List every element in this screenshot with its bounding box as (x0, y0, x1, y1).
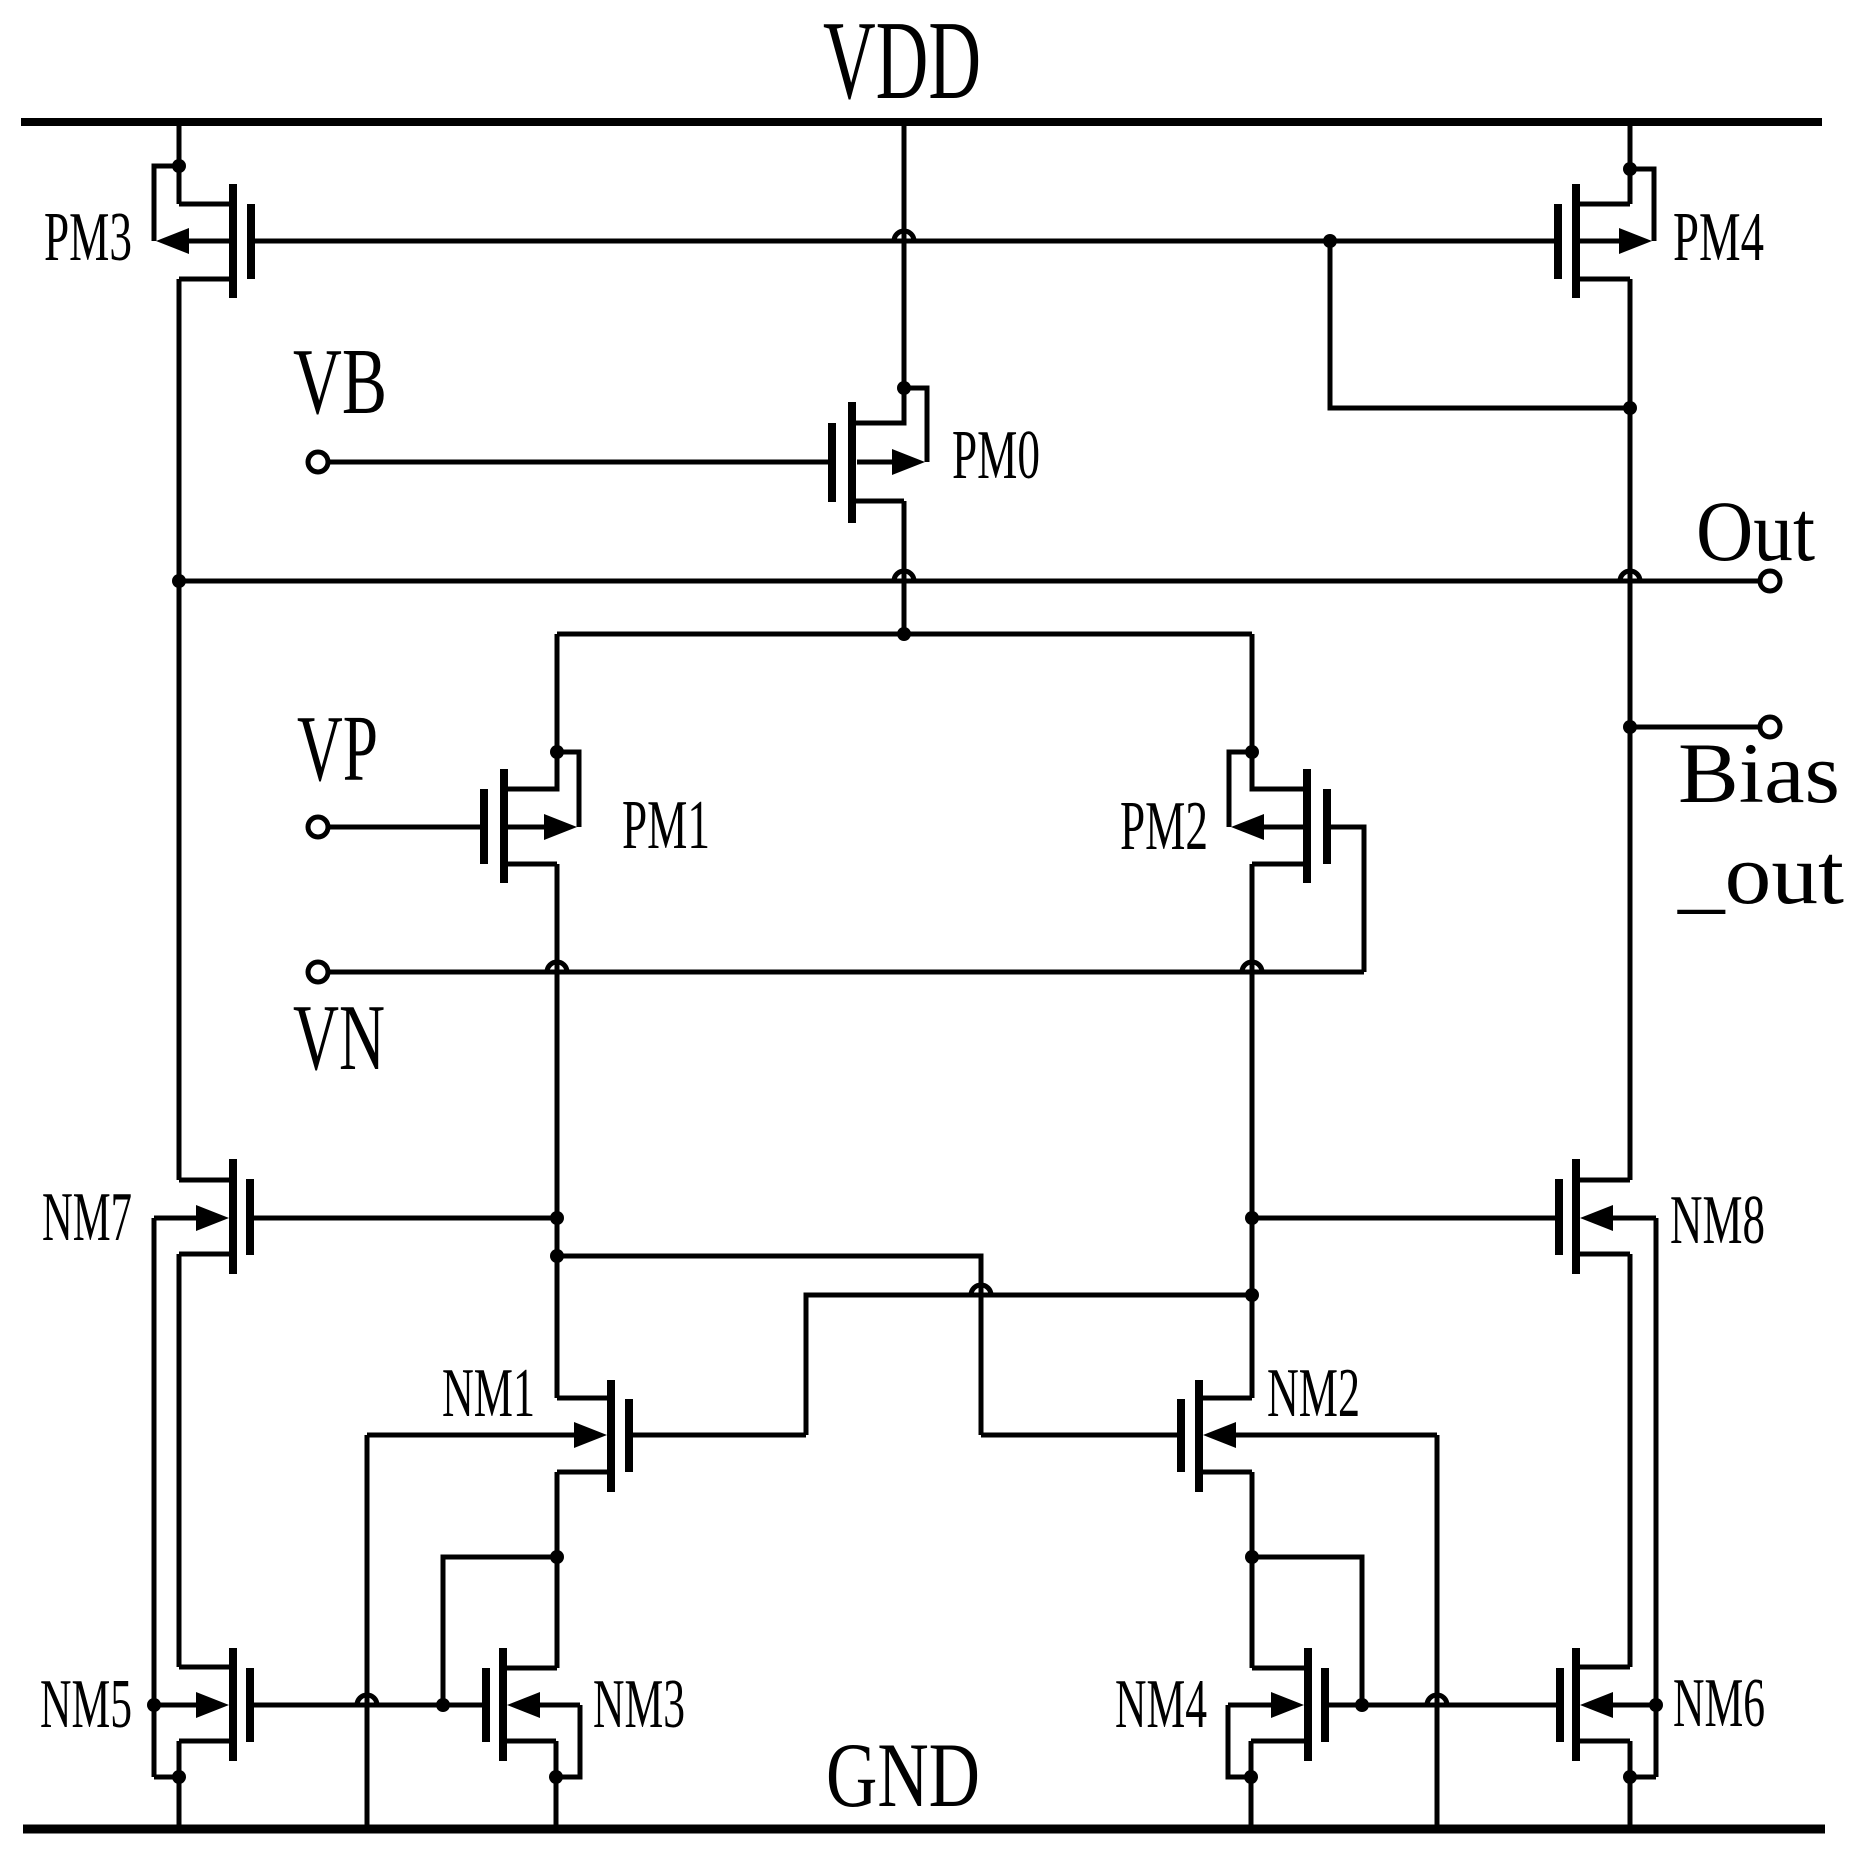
transistor PM0 (832, 402, 925, 523)
wire NM4 source to GND (1249, 1741, 1254, 1827)
node NM4-NM6 gate junction (1355, 1698, 1369, 1712)
node tail-PM0 junction (897, 627, 911, 641)
wire NM1 gate lead (633, 1433, 806, 1438)
node Bias_out tap (1623, 720, 1637, 734)
wire tail to PM1 source (555, 634, 560, 752)
svg-text:VB: VB (293, 330, 387, 434)
wire NM2 source to NM4 drain (1252, 1666, 1308, 1671)
node NM7 gate junction (550, 1211, 564, 1225)
terminal Out (1760, 571, 1780, 591)
transistor NM5 (154, 1648, 250, 1761)
transistor NM7 (154, 1159, 250, 1274)
wire NM4 bulk loop (1228, 1705, 1251, 1777)
wire GND rail (23, 1825, 1825, 1834)
node NM6 source-bulk junction (1623, 1770, 1637, 1784)
wire NM8 bulk down to NM6 (1654, 1218, 1659, 1777)
wire PM0 drain down to tail (902, 501, 907, 634)
node NM2 source junction (1245, 1550, 1259, 1564)
wire Bias_out lead (1630, 725, 1760, 730)
svg-text:NM2: NM2 (1267, 1355, 1360, 1432)
svg-text:NM4: NM4 (1115, 1666, 1207, 1743)
wire NM2 source to NM4 gate (1252, 1557, 1362, 1705)
node PM4 source-bulk junction (1623, 162, 1637, 176)
wire cross-couple B to NM1 gate (806, 1295, 1252, 1435)
transistor PM2 (1231, 769, 1327, 883)
wire PM0 source stub link (852, 388, 904, 423)
svg-text:VDD: VDD (823, 0, 981, 123)
svg-text:VN: VN (293, 986, 385, 1090)
transistor PM3 (156, 184, 251, 298)
wire NM5 bulk loop bottom (154, 1775, 179, 1780)
wire PM2 bulk loop (1229, 752, 1252, 827)
wire PM2 gate to VN line (1331, 827, 1364, 972)
transistor NM4 (1228, 1648, 1362, 1761)
wire PM0 bulk loop (904, 388, 927, 462)
terminal VP (308, 817, 328, 837)
node Out-left column junction (172, 574, 186, 588)
wire diff-pair tail line (557, 632, 1252, 637)
node NM5 source-bulk junction (172, 1770, 186, 1784)
wire NM2 gate lead (981, 1433, 1177, 1438)
wire NM6 bulk loop bottom (1630, 1775, 1656, 1780)
wire PM4 drain down right column (1628, 279, 1633, 1180)
transistor PM4 (1558, 184, 1652, 298)
wire NM5 gate line (254, 1703, 443, 1708)
transistor NM3 (443, 1648, 580, 1761)
transistor NM8 (1559, 1159, 1656, 1274)
wire NM7 source down to NM5 drain (177, 1254, 182, 1667)
svg-text:NM6: NM6 (1673, 1665, 1765, 1742)
svg-text:VP: VP (297, 697, 378, 801)
hop line A over line B (971, 1285, 991, 1295)
node PM3 source-bulk junction (172, 159, 186, 173)
wire cross-couple A to NM2 gate (557, 1256, 981, 1435)
wire NM7 bulk down to NM5 (152, 1218, 157, 1777)
node cross-couple B tap (1245, 1288, 1259, 1302)
wire NM8 source down to NM6 drain (1628, 1254, 1633, 1667)
wire PM2 source stub link (1252, 752, 1303, 789)
wire VB to PM0 gate (328, 460, 828, 465)
wire PM1 source stub link (508, 752, 557, 789)
wire Out line (179, 579, 1760, 584)
svg-text:PM4: PM4 (1673, 199, 1764, 276)
hop NM1 bulk over NM5 gate line (357, 1695, 377, 1705)
svg-text:NM3: NM3 (593, 1666, 685, 1743)
wire PM3 drain down left column (177, 279, 182, 1180)
terminal VN (308, 962, 328, 982)
wire NM2 bulk to GND (1435, 1435, 1440, 1827)
wire NM3 bulk loop (556, 1705, 580, 1777)
node PM0 source-bulk junction (897, 381, 911, 395)
terminal VB (308, 452, 328, 472)
wire PM3 source from VDD (177, 122, 182, 204)
wire NM6 gate line (1362, 1703, 1556, 1708)
node NM5 bulk tap (147, 1698, 161, 1712)
wire NM1 source to NM3 gate (443, 1557, 557, 1705)
terminal Bias_out (1760, 717, 1780, 737)
hop Out line at right column (1620, 571, 1640, 581)
wire NM2 source down (1250, 1472, 1255, 1668)
node NM5-NM3 gate junction (436, 1698, 450, 1712)
wire PM1 drain down (555, 864, 560, 1398)
svg-text:Out: Out (1696, 483, 1815, 579)
svg-text:GND: GND (826, 1724, 980, 1826)
hop PM1 drain over VN line (547, 962, 567, 972)
wire tail to PM2 source (1250, 634, 1255, 752)
svg-text:PM1: PM1 (622, 787, 710, 864)
wire NM1 source down (555, 1472, 560, 1668)
wire NM1 source to NM3 drain (503, 1666, 557, 1671)
wire PM1 bulk loop (557, 752, 579, 827)
wire VDD rail (21, 118, 1822, 126)
node NM4 source-bulk junction (1244, 1770, 1258, 1784)
node PM1 source-bulk junction (550, 745, 564, 759)
wire NM5 source to GND (177, 1741, 182, 1827)
wire NM3 source to GND (554, 1741, 559, 1827)
node PM4 gate tap (1323, 234, 1337, 248)
transistor PM1 (484, 769, 577, 883)
node PM2 source-bulk junction (1245, 745, 1259, 759)
hop NM2 bulk over NM6 gate line (1427, 1695, 1447, 1705)
svg-text:PM2: PM2 (1120, 788, 1208, 865)
wire NM6 source to GND (1628, 1741, 1633, 1827)
node cross-couple A tap (550, 1249, 564, 1263)
svg-text:PM3: PM3 (44, 199, 132, 276)
node PM4 drain diode junction (1623, 401, 1637, 415)
hop center vertical over gate line (894, 231, 914, 241)
svg-text:NM5: NM5 (40, 1666, 132, 1743)
wire PM4 gate-drain diode link (1330, 241, 1630, 408)
svg-text:Bias: Bias (1678, 725, 1840, 821)
svg-text:NM1: NM1 (442, 1355, 535, 1432)
transistor NM6 (1560, 1648, 1656, 1761)
svg-text:PM0: PM0 (952, 417, 1040, 494)
wire VN line (328, 970, 1364, 975)
wire PM4 source from VDD (1628, 122, 1633, 204)
svg-text:NM8: NM8 (1670, 1182, 1765, 1259)
wire PM3-PM4 gate line (255, 239, 1554, 244)
node NM8 gate junction (1245, 1211, 1259, 1225)
wire NM8 gate line (1252, 1216, 1555, 1221)
transistor NM2 (1181, 1380, 1437, 1492)
node NM3 source-bulk junction (549, 1770, 563, 1784)
svg-text:NM7: NM7 (42, 1179, 132, 1256)
wire NM1 bulk to GND (365, 1435, 370, 1827)
wire PM3 bulk loop (154, 166, 179, 241)
node NM1 source junction (550, 1550, 564, 1564)
wire PM4 bulk loop (1630, 169, 1654, 241)
wire NM7 gate line (254, 1216, 557, 1221)
hop PM0 drain over Out line (894, 571, 914, 581)
node NM6 bulk tap (1649, 1698, 1663, 1712)
wire VP to PM1 gate (328, 825, 480, 830)
transistor NM1 (367, 1380, 629, 1492)
wire PM0 source from VDD (902, 122, 907, 388)
svg-text:_out: _out (1677, 826, 1844, 922)
hop PM2 drain over VN line (1242, 962, 1262, 972)
wire PM2 drain down (1250, 864, 1255, 1398)
